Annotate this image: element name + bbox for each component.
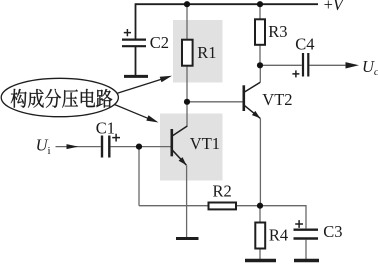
ground (VT1 emitter) <box>176 237 199 240</box>
wire: C3 bottom to ground <box>305 240 307 259</box>
resistor R1 <box>182 40 193 66</box>
C3 polarity plus <box>295 220 303 228</box>
capacitor C4 (electrolytic, output coupling) <box>303 53 308 77</box>
wire: C2 bottom to ground <box>135 47 137 76</box>
wire: bottom run to R2 left <box>139 205 209 207</box>
wire: R2 right to node E <box>236 205 260 207</box>
callout arrow to VT1 highlight <box>115 105 159 123</box>
wire: node A to VT1 base <box>139 146 171 148</box>
wire: node E right then down to C3 <box>260 206 306 229</box>
capacitor C1 (electrolytic, input coupling) <box>102 136 109 158</box>
wire: +V top supply rail <box>136 3 319 5</box>
svg-text:C3: C3 <box>323 222 342 241</box>
svg-text:VT2: VT2 <box>262 90 292 109</box>
ground (C3) <box>294 259 319 262</box>
resistor R4 <box>255 223 265 249</box>
junction dot: node A: C1-VT1 base <box>136 144 142 150</box>
highlight box around R1 (voltage divider) <box>173 20 223 83</box>
wire: VT2 emitter down to node E <box>259 118 261 205</box>
ground (C2) <box>124 75 148 78</box>
callout text: 构成分压电路 <box>11 89 113 108</box>
svg-text:R3: R3 <box>268 22 287 41</box>
svg-text:VT1: VT1 <box>190 134 220 153</box>
wire: node A down to bottom feedback run <box>138 147 140 206</box>
junction dot: top rail / R1 <box>184 1 190 7</box>
wire: VT2 collector node to C4 <box>260 64 302 66</box>
C1 polarity plus <box>112 134 120 142</box>
transistor VT1 (NPN) <box>172 126 188 165</box>
svg-text:R2: R2 <box>213 181 232 200</box>
highlight box around VT1 (voltage divider) <box>160 114 223 181</box>
callout arrow to R1 highlight <box>115 76 172 94</box>
junction dot: node C: R3-VT2 collector-C4 <box>257 62 263 68</box>
output arrowhead <box>346 62 360 68</box>
svg-text:+V: +V <box>324 0 345 14</box>
ground (R4) <box>245 259 276 262</box>
C2 polarity plus <box>124 29 131 36</box>
wire: VT1 emitter down to ground <box>186 165 188 237</box>
wire: R3 bottom to VT2 collector node <box>259 45 261 66</box>
junction dot: node B: R1-VT1 collector-VT2 base <box>184 99 190 105</box>
wire: node B down to VT1 collector <box>186 102 188 126</box>
wire: input line U_i to C1 <box>56 146 101 148</box>
input arrowhead on U_i line <box>67 144 79 149</box>
svg-text:C1: C1 <box>96 119 115 138</box>
wire: node E down to R4 <box>259 206 261 223</box>
wire: R1 bottom to node B (VT2 base node) <box>186 66 188 102</box>
wire: C4 to output arrow <box>310 64 348 66</box>
resistor R2 <box>209 203 237 210</box>
svg-text:C4: C4 <box>295 34 314 53</box>
svg-text:R1: R1 <box>197 43 216 62</box>
junction dot: node E: R2-R4-C3-VT2 emitter <box>257 203 263 209</box>
wire: rail to R1 top <box>186 4 188 40</box>
callout ellipse <box>1 78 118 116</box>
svg-text:R4: R4 <box>269 226 288 245</box>
wire: C1 to node A (VT1 base node) <box>111 146 139 148</box>
wire: rail to R3 top <box>259 4 261 19</box>
junction dot: top rail / R3 <box>257 1 263 7</box>
svg-text:C2: C2 <box>150 33 169 52</box>
wire: top rail corner down to C2 <box>135 3 137 39</box>
capacitor C2 (electrolytic) <box>122 40 146 47</box>
wire: R4 bottom to ground <box>259 249 261 260</box>
C4 polarity plus <box>292 70 299 77</box>
resistor R3 <box>255 19 265 45</box>
wire: node B to VT2 base <box>187 101 244 103</box>
transistor VT2 (NPN) <box>244 65 260 118</box>
capacitor C3 (electrolytic, emitter bypass) <box>294 230 319 239</box>
